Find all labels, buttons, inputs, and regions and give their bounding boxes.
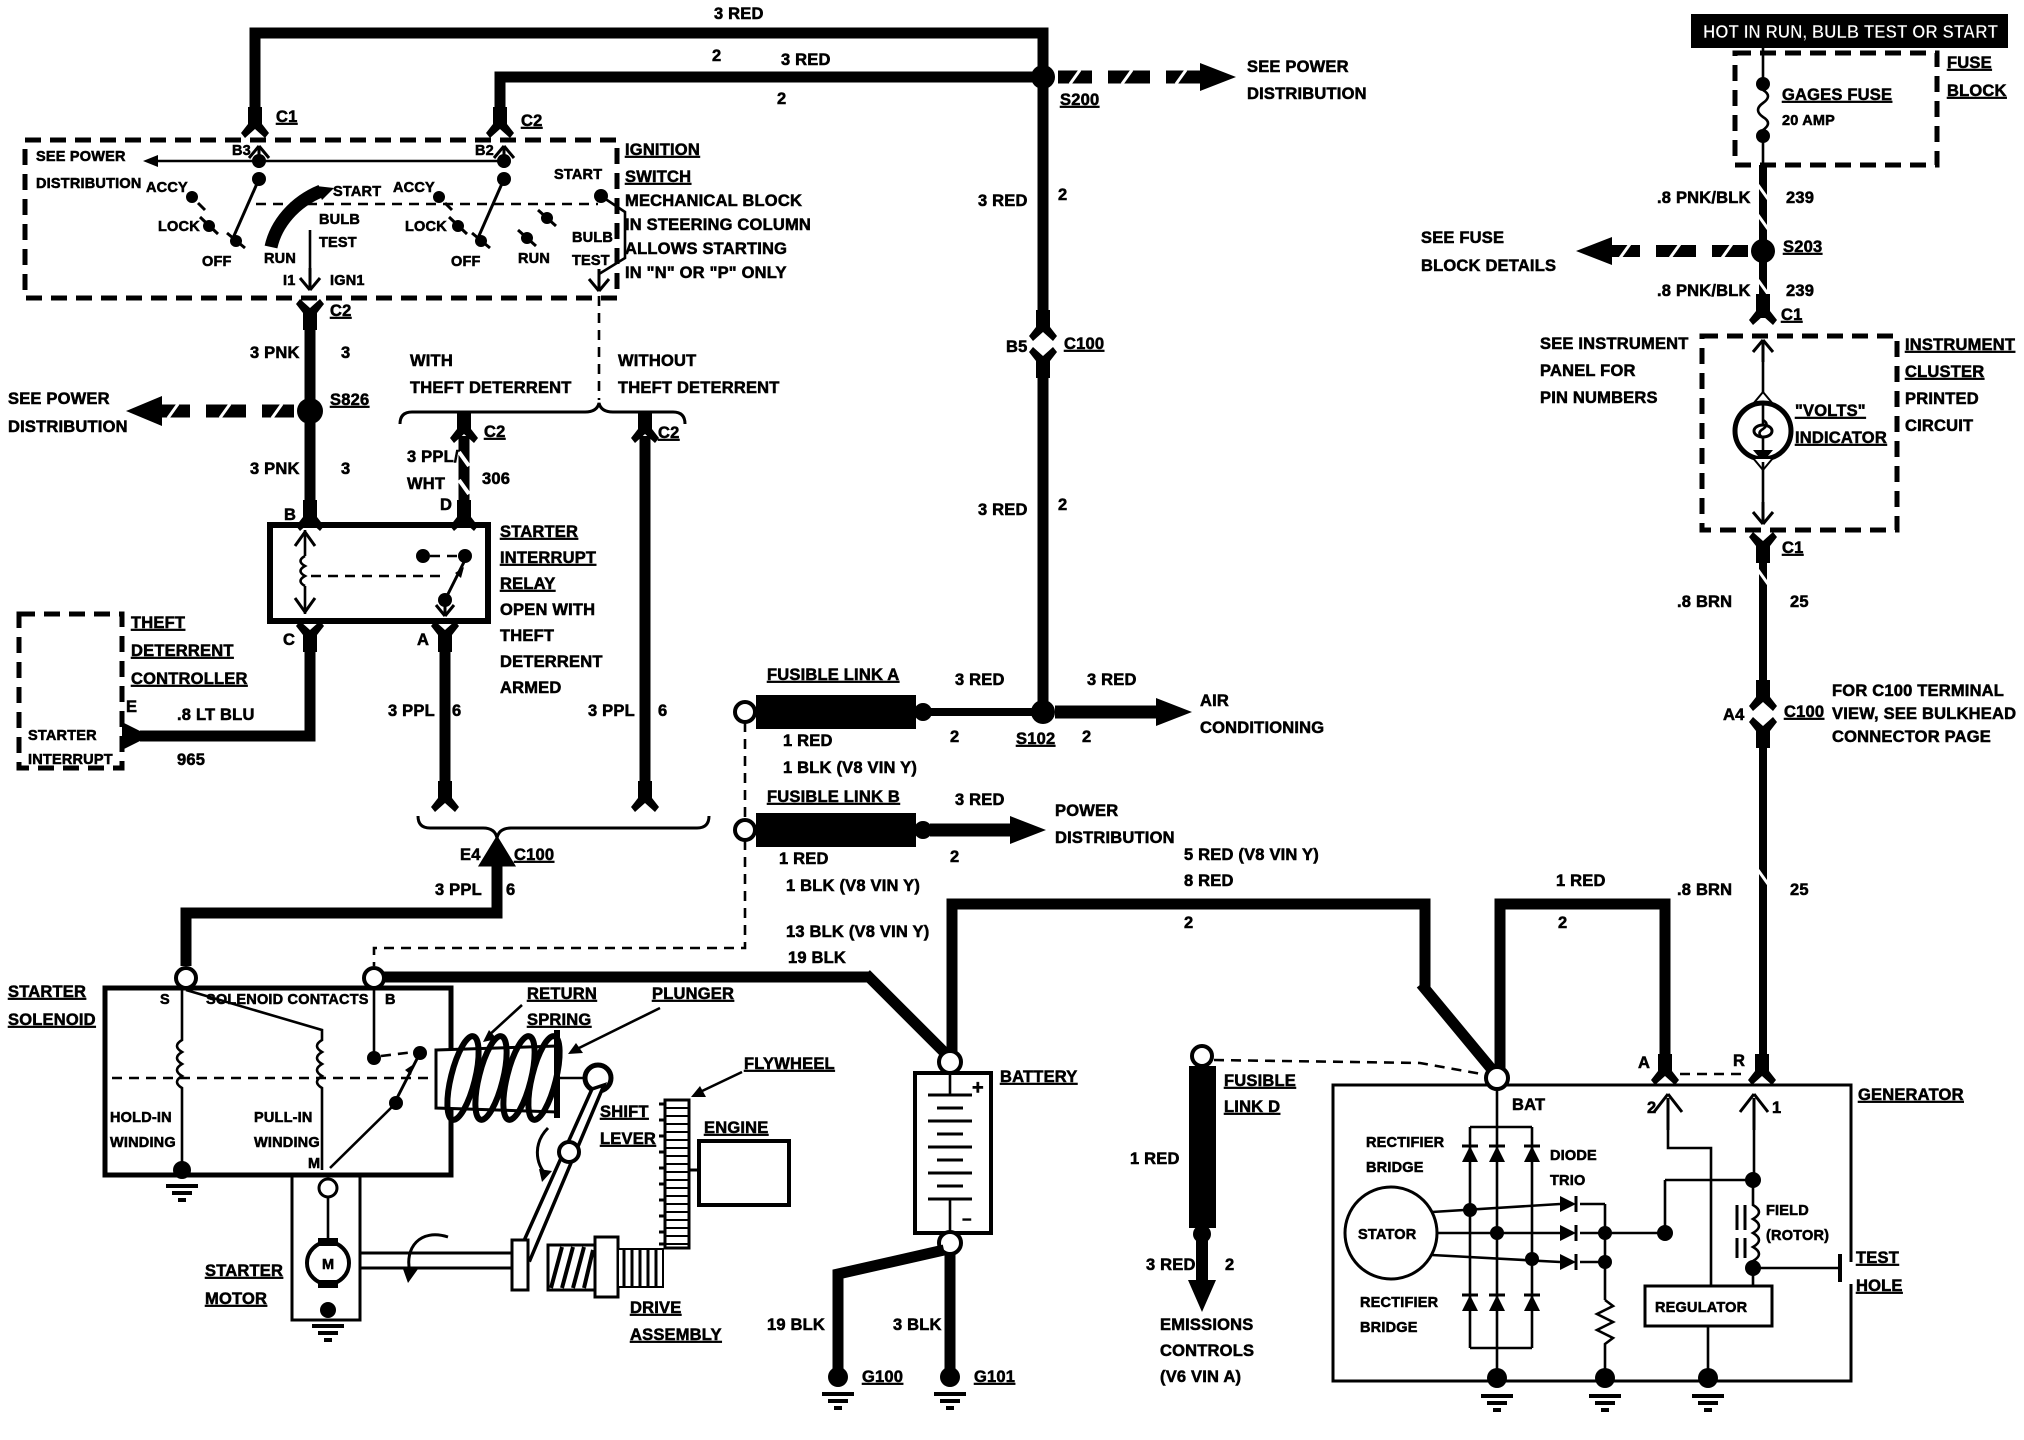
svg-text:SOLENOID CONTACTS: SOLENOID CONTACTS (206, 992, 369, 1008)
plunger end plate (554, 1030, 560, 1118)
wire: 3 RED to S102 (930, 708, 1043, 716)
svg-text:2: 2 (1058, 186, 1067, 204)
HOT banner (1691, 14, 2008, 48)
svg-text:.8 LT BLU: .8 LT BLU (177, 706, 255, 724)
svg-text:.8 BRN: .8 BRN (1677, 593, 1732, 611)
svg-text:3 RED: 3 RED (955, 671, 1005, 689)
svg-text:C1: C1 (1782, 539, 1804, 557)
svg-text:BRIDGE: BRIDGE (1360, 1320, 1418, 1336)
svg-text:3 PPL: 3 PPL (388, 702, 435, 720)
svg-text:2: 2 (1082, 728, 1091, 746)
pin B2 arrow (494, 146, 514, 168)
wire: C terminal down to theft controller E (140, 634, 310, 736)
svg-text:IN STEERING COLUMN: IN STEERING COLUMN (625, 216, 811, 234)
svg-text:AIR: AIR (1200, 692, 1229, 710)
svg-text:TRIO: TRIO (1550, 1173, 1585, 1189)
svg-text:C2: C2 (330, 302, 352, 320)
rotation arrow (409, 1235, 448, 1272)
svg-text:INSTRUMENT: INSTRUMENT (1905, 336, 2015, 354)
svg-text:1 RED: 1 RED (1556, 872, 1606, 890)
svg-text:DISTRIBUTION: DISTRIBUTION (8, 418, 128, 436)
svg-text:DISTRIBUTION: DISTRIBUTION (1055, 829, 1175, 847)
svg-text:3 RED: 3 RED (714, 5, 764, 23)
wire: 3 RED top feed from ignition C1 to S200 (255, 33, 1043, 116)
generator grounds (1487, 1368, 1507, 1388)
svg-text:1: 1 (1772, 1099, 1781, 1117)
svg-text:2: 2 (1058, 496, 1067, 514)
svg-text:HOLD-IN: HOLD-IN (110, 1110, 172, 1126)
svg-text:−: − (962, 1211, 972, 1229)
svg-text:19 BLK: 19 BLK (788, 949, 846, 967)
motor shaft (360, 1252, 512, 1255)
svg-text:2: 2 (1225, 1256, 1234, 1274)
svg-text:3 RED: 3 RED (1087, 671, 1137, 689)
wire: internal bus to left arrow (150, 160, 504, 163)
switch pole 2 wiper (478, 179, 504, 238)
svg-text:3 PNK: 3 PNK (250, 460, 300, 478)
wire: 3 RED vertical S200 to S102 (1038, 77, 1049, 314)
starter motor (307, 1242, 349, 1284)
svg-text:5 RED (V8 VIN Y): 5 RED (V8 VIN Y) (1184, 846, 1319, 864)
svg-text:OPEN WITH: OPEN WITH (500, 601, 595, 619)
svg-text:BLOCK: BLOCK (1947, 82, 2007, 100)
svg-text:RETURN: RETURN (527, 985, 597, 1003)
dashed link between fusible links and down to B terminal (744, 722, 747, 818)
svg-text:RUN: RUN (518, 251, 550, 267)
svg-text:BLOCK DETAILS: BLOCK DETAILS (1421, 257, 1556, 275)
svg-text:WITH: WITH (410, 352, 453, 370)
connector B5 C100 inline (1029, 310, 1057, 341)
stator (1345, 1187, 1437, 1279)
svg-text:FUSIBLE: FUSIBLE (1224, 1072, 1296, 1090)
ground G100 (828, 1367, 848, 1387)
svg-text:ENGINE: ENGINE (704, 1119, 768, 1137)
svg-text:M: M (308, 1156, 320, 1172)
svg-text:S: S (160, 992, 170, 1008)
svg-text:LOCK: LOCK (405, 219, 447, 235)
svg-text:2: 2 (712, 47, 721, 65)
svg-text:INTERRUPT: INTERRUPT (500, 549, 596, 567)
svg-text:2: 2 (950, 848, 959, 866)
svg-text:C2: C2 (658, 424, 680, 442)
svg-text:M: M (322, 1257, 334, 1273)
svg-text:TEST: TEST (572, 253, 610, 269)
wire: 3 RED second feed from ignition C2 to S200 (500, 77, 1043, 116)
svg-text:HOLE: HOLE (1856, 1277, 1903, 1295)
solenoid box (105, 988, 451, 1175)
starter motor enclosure (292, 1175, 360, 1320)
wire from terminal 2 to regulator (1668, 1130, 1711, 1286)
svg-text:BULB: BULB (319, 212, 360, 228)
svg-text:S102: S102 (1016, 730, 1055, 748)
svg-text:A4: A4 (1723, 706, 1745, 724)
svg-text:1 BLK (V8 VIN Y): 1 BLK (V8 VIN Y) (786, 877, 920, 895)
dash-dot centerline (112, 1077, 560, 1080)
svg-text:HOT IN RUN, BULB TEST OR START: HOT IN RUN, BULB TEST OR START (1703, 22, 1998, 42)
svg-text:8 RED: 8 RED (1184, 872, 1234, 890)
svg-text:FUSIBLE LINK B: FUSIBLE LINK B (767, 788, 900, 806)
svg-text:I1: I1 (283, 273, 296, 289)
svg-text:E: E (126, 698, 137, 716)
svg-text:B: B (385, 992, 396, 1008)
svg-text:THEFT DETERRENT: THEFT DETERRENT (410, 379, 572, 397)
svg-text:ACCY: ACCY (146, 180, 188, 196)
svg-text:R: R (1733, 1052, 1745, 1070)
svg-text:C100: C100 (514, 846, 554, 864)
wire: 19 BLK from solenoid B to battery (382, 972, 871, 983)
arrow to AIR CONDITIONING (1055, 706, 1160, 719)
svg-text:2: 2 (1184, 914, 1193, 932)
contacts pole 2 (433, 191, 445, 203)
fusible link A body (735, 702, 755, 722)
svg-text:3 RED: 3 RED (781, 51, 831, 69)
svg-text:RECTIFIER: RECTIFIER (1360, 1295, 1439, 1311)
rectifier diodes top row (1462, 1146, 1540, 1162)
svg-text:20 AMP: 20 AMP (1782, 113, 1835, 129)
svg-text:STARTER: STARTER (205, 1262, 283, 1280)
svg-text:1 BLK (V8 VIN Y): 1 BLK (V8 VIN Y) (783, 759, 917, 777)
terminal S (176, 968, 196, 988)
svg-text:239: 239 (1786, 189, 1814, 207)
svg-text:MECHANICAL BLOCK: MECHANICAL BLOCK (625, 192, 802, 210)
BAT internal line (1496, 1089, 1499, 1378)
relay box (270, 525, 488, 621)
svg-text:CONDITIONING: CONDITIONING (1200, 719, 1324, 737)
svg-text:LEVER: LEVER (600, 1130, 656, 1148)
svg-text:RELAY: RELAY (500, 575, 555, 593)
svg-text:BULB: BULB (572, 230, 613, 246)
stator leads (1432, 1204, 1560, 1212)
svg-text:SWITCH: SWITCH (625, 168, 691, 186)
plunger body (436, 1046, 556, 1112)
contacts pole 1: ACCY LOCK OFF (186, 191, 198, 203)
svg-text:PULL-IN: PULL-IN (254, 1110, 313, 1126)
svg-text:B: B (284, 506, 296, 524)
svg-text:IGNITION: IGNITION (625, 141, 700, 159)
dashed arrow SEE POWER DISTRIBUTION (left) (160, 405, 294, 418)
svg-text:SEE INSTRUMENT: SEE INSTRUMENT (1540, 335, 1689, 353)
svg-text:CIRCUIT: CIRCUIT (1905, 417, 1973, 435)
wire: 1 RED from BAT up over to A (1500, 904, 1665, 1072)
connector C2 (without theft det.) (631, 412, 659, 443)
svg-text:25: 25 (1790, 593, 1809, 611)
node to field/regulator (1605, 1232, 1665, 1235)
dashed from fusible link D to generator BAT (1214, 1060, 1487, 1075)
svg-text:SEE POWER: SEE POWER (8, 390, 110, 408)
svg-text:WHT: WHT (407, 475, 445, 493)
svg-text:CONTROLLER: CONTROLLER (131, 670, 248, 688)
svg-text:1 RED: 1 RED (779, 850, 829, 868)
wire: 19 BLK to G100 (838, 1250, 944, 1370)
svg-text:SHIFT: SHIFT (600, 1103, 649, 1121)
gages fuse (1762, 48, 1765, 80)
splice S200 (1031, 65, 1055, 89)
BAT terminal (1486, 1067, 1508, 1089)
START contact pole 2 (594, 189, 608, 203)
svg-text:C: C (283, 631, 295, 649)
connector at E (122, 722, 140, 750)
hold-in winding (177, 988, 182, 1168)
svg-text:E4: E4 (460, 846, 481, 864)
svg-text:WITHOUT: WITHOUT (618, 352, 696, 370)
node B3 dots (252, 154, 266, 168)
connector C2 (with theft det.) (450, 412, 478, 443)
wire: 8 RED from battery to generator BAT (952, 904, 1425, 1058)
svg-text:2: 2 (950, 728, 959, 746)
terminal B (364, 968, 384, 988)
svg-text:ARMED: ARMED (500, 679, 562, 697)
connector C1 (ignition) (241, 107, 269, 138)
test hole line (1753, 1267, 1838, 1270)
svg-text:FIELD: FIELD (1766, 1203, 1809, 1219)
flywheel gear (665, 1100, 689, 1248)
svg-text:INTERRUPT: INTERRUPT (28, 752, 113, 768)
svg-text:VIEW, SEE BULKHEAD: VIEW, SEE BULKHEAD (1832, 705, 2016, 723)
drive collar (512, 1240, 528, 1290)
wire: .8 PNK/BLK 239 to cluster C1 (1759, 260, 1767, 318)
relay contact (416, 549, 430, 563)
rectifier diodes bottom row (1462, 1295, 1540, 1311)
dashed line from START down to brace (598, 296, 601, 400)
battery plates (949, 1073, 952, 1095)
splined shaft (618, 1249, 663, 1287)
svg-text:STARTER: STARTER (28, 728, 97, 744)
svg-text:EMISSIONS: EMISSIONS (1160, 1316, 1254, 1334)
wire from terminal 1 to field (1753, 1130, 1756, 1180)
svg-text:DETERRENT: DETERRENT (500, 653, 603, 671)
svg-text:WINDING: WINDING (254, 1135, 320, 1151)
svg-text:REGULATOR: REGULATOR (1655, 1300, 1748, 1316)
battery negative circle (939, 1232, 961, 1254)
rectifier rails (1470, 1126, 1532, 1129)
wire: IGN1 drop (309, 230, 312, 282)
svg-text:G100: G100 (862, 1368, 903, 1386)
svg-text:2: 2 (777, 90, 786, 108)
svg-text:STARTER: STARTER (500, 523, 578, 541)
svg-text:GENERATOR: GENERATOR (1858, 1086, 1964, 1104)
svg-text:START: START (554, 167, 602, 183)
svg-text:1 RED: 1 RED (1130, 1150, 1180, 1168)
volts indicator bulb (1735, 403, 1791, 459)
svg-text:INDICATOR: INDICATOR (1795, 429, 1887, 447)
svg-text:2: 2 (1647, 1099, 1656, 1117)
svg-text:D: D (440, 496, 452, 514)
pinion collar (595, 1237, 618, 1297)
svg-text:(ROTOR): (ROTOR) (1766, 1228, 1829, 1244)
svg-text:3 PPL/: 3 PPL/ (407, 448, 459, 466)
svg-text:+: + (972, 1077, 984, 1099)
svg-text:THEFT: THEFT (500, 627, 554, 645)
connector C2 (ignition) (486, 107, 514, 138)
svg-text:THEFT: THEFT (131, 614, 185, 632)
svg-text:C1: C1 (276, 108, 298, 126)
svg-text:FUSIBLE LINK A: FUSIBLE LINK A (767, 666, 899, 684)
connector C2 below ignition (296, 299, 324, 330)
svg-text:IN "N" OR "P" ONLY: IN "N" OR "P" ONLY (625, 264, 787, 282)
return spring coils (441, 1033, 566, 1122)
switch pole 1 wiper (233, 179, 259, 238)
svg-text:PIN NUMBERS: PIN NUMBERS (1540, 389, 1658, 407)
svg-text:13 BLK (V8 VIN Y): 13 BLK (V8 VIN Y) (786, 923, 929, 941)
svg-text:3 RED: 3 RED (1146, 1256, 1196, 1274)
svg-text:3 RED: 3 RED (955, 791, 1005, 809)
svg-text:ALLOWS STARTING: ALLOWS STARTING (625, 240, 787, 258)
svg-text:CONNECTOR PAGE: CONNECTOR PAGE (1832, 728, 1991, 746)
svg-text:"VOLTS": "VOLTS" (1795, 402, 1866, 420)
svg-text:3 RED: 3 RED (978, 501, 1028, 519)
svg-text:25: 25 (1790, 881, 1809, 899)
svg-text:306: 306 (482, 470, 510, 488)
svg-text:.8 PNK/BLK: .8 PNK/BLK (1657, 189, 1751, 207)
brace over C2 connectors (400, 403, 685, 424)
wire: 3 PPL/WHT striped to relay D (459, 436, 470, 525)
svg-text:.8 BRN: .8 BRN (1677, 881, 1732, 899)
connector A4 C100 (1749, 680, 1777, 711)
svg-text:6: 6 (506, 881, 515, 899)
svg-text:TEST: TEST (319, 235, 357, 251)
svg-text:DETERRENT: DETERRENT (131, 642, 234, 660)
svg-text:6: 6 (658, 702, 667, 720)
svg-text:DRIVE: DRIVE (630, 1299, 681, 1317)
svg-text:ASSEMBLY: ASSEMBLY (630, 1326, 722, 1344)
svg-text:MOTOR: MOTOR (205, 1290, 267, 1308)
svg-text:SEE POWER: SEE POWER (1247, 58, 1349, 76)
svg-text:STATOR: STATOR (1358, 1227, 1417, 1243)
svg-text:.8 PNK/BLK: .8 PNK/BLK (1657, 282, 1751, 300)
svg-text:START: START (333, 184, 381, 200)
svg-text:PLUNGER: PLUNGER (652, 985, 734, 1003)
svg-text:1 RED: 1 RED (783, 732, 833, 750)
svg-text:PRINTED: PRINTED (1905, 390, 1979, 408)
lever (518, 1085, 604, 1260)
svg-text:C100: C100 (1784, 703, 1824, 721)
svg-text:FOR C100 TERMINAL: FOR C100 TERMINAL (1832, 682, 2004, 700)
svg-text:WINDING: WINDING (110, 1135, 176, 1151)
pin B3 arrow (249, 146, 269, 168)
svg-text:LINK D: LINK D (1224, 1098, 1280, 1116)
splice S203 (1751, 239, 1775, 263)
svg-text:S200: S200 (1060, 91, 1099, 109)
brace under 3 PPL wires (418, 816, 709, 838)
svg-text:OFF: OFF (202, 254, 232, 270)
svg-text:DIODE: DIODE (1550, 1148, 1597, 1164)
terminal arrows inside (1654, 1094, 1682, 1130)
connector E4 C100 (486, 844, 508, 866)
svg-text:TEST: TEST (1856, 1249, 1899, 1267)
connector C1 bottom (1749, 532, 1777, 563)
dashed arrow to SEE POWER DISTRIBUTION (right) (1058, 71, 1200, 84)
splice S102 (1031, 700, 1055, 724)
fuse block dashed box (1735, 53, 1937, 165)
svg-text:B5: B5 (1006, 338, 1028, 356)
mechanical link dashed (256, 203, 598, 206)
svg-text:STARTER: STARTER (8, 983, 86, 1001)
svg-text:B3: B3 (232, 143, 251, 159)
resistor (1597, 1300, 1613, 1378)
node B2 dots (497, 154, 511, 168)
svg-text:DISTRIBUTION: DISTRIBUTION (36, 176, 142, 192)
pull-in winding (186, 990, 322, 1170)
svg-text:SEE FUSE: SEE FUSE (1421, 229, 1504, 247)
svg-text:C2: C2 (521, 112, 543, 130)
solenoid ground junction (173, 1161, 191, 1179)
svg-text:POWER: POWER (1055, 802, 1118, 820)
hatched sleeve (548, 1245, 595, 1290)
svg-text:B2: B2 (475, 143, 494, 159)
wire: A terminal down to brace (440, 634, 451, 794)
generator box (1333, 1085, 1851, 1381)
svg-text:S826: S826 (330, 391, 369, 409)
svg-text:BRIDGE: BRIDGE (1366, 1160, 1424, 1176)
A and R connectors on top (1651, 1054, 1679, 1085)
svg-text:RUN: RUN (264, 251, 296, 267)
contact arm from B (373, 988, 376, 1052)
arrow to POWER DISTRIBUTION (930, 824, 1012, 837)
svg-text:6: 6 (452, 702, 461, 720)
relay coil (301, 530, 306, 614)
svg-text:3 RED: 3 RED (978, 192, 1028, 210)
splice S826 (297, 398, 323, 424)
svg-text:19 BLK: 19 BLK (767, 1316, 825, 1334)
ground G101 (940, 1367, 960, 1387)
svg-text:GAGES FUSE: GAGES FUSE (1782, 86, 1892, 104)
svg-text:CONTROLS: CONTROLS (1160, 1342, 1254, 1360)
svg-text:FUSE: FUSE (1947, 54, 1992, 72)
svg-text:3: 3 (341, 344, 350, 362)
svg-text:A: A (417, 631, 429, 649)
svg-text:2: 2 (1558, 914, 1567, 932)
regulator (1645, 1286, 1772, 1326)
svg-text:OFF: OFF (451, 254, 481, 270)
svg-text:FLYWHEEL: FLYWHEEL (744, 1055, 835, 1073)
svg-text:RECTIFIER: RECTIFIER (1366, 1135, 1445, 1151)
svg-text:239: 239 (1786, 282, 1814, 300)
svg-text:C1: C1 (1781, 306, 1803, 324)
curved arrow at lever (537, 1128, 548, 1176)
svg-text:DISTRIBUTION: DISTRIBUTION (1247, 85, 1367, 103)
svg-text:SEE POWER: SEE POWER (36, 149, 126, 165)
wire: 3 PPL right branch (without theft) (640, 436, 651, 794)
wire: 3 PNK from ignition to S826 (305, 316, 316, 525)
svg-text:3: 3 (341, 460, 350, 478)
svg-text:C100: C100 (1064, 335, 1104, 353)
svg-text:SOLENOID: SOLENOID (8, 1011, 96, 1029)
svg-text:S203: S203 (1783, 238, 1822, 256)
dashed arrow SEE FUSE BLOCK DETAILS (1610, 245, 1748, 257)
svg-text:C2: C2 (484, 423, 506, 441)
trio output rail (1580, 1203, 1605, 1206)
svg-text:BAT: BAT (1512, 1096, 1545, 1114)
svg-text:BATTERY: BATTERY (1000, 1068, 1077, 1086)
svg-text:G101: G101 (974, 1368, 1015, 1386)
svg-text:PANEL FOR: PANEL FOR (1540, 362, 1636, 380)
svg-text:3 BLK: 3 BLK (893, 1316, 942, 1334)
svg-text:CLUSTER: CLUSTER (1905, 363, 1984, 381)
svg-text:THEFT DETERRENT: THEFT DETERRENT (618, 379, 780, 397)
wire: .8 PNK/BLK 239 to S203 (1759, 165, 1767, 242)
svg-text:A: A (1638, 1054, 1650, 1072)
svg-text:(V6 VIN A): (V6 VIN A) (1160, 1368, 1241, 1386)
svg-text:965: 965 (177, 751, 205, 769)
svg-text:IGN1: IGN1 (330, 273, 365, 289)
svg-text:LOCK: LOCK (158, 219, 200, 235)
START wiper arc pole 1 (271, 191, 321, 247)
wire: 3 PPL 6 down to starter solenoid S (186, 862, 497, 966)
relay dash link (311, 575, 446, 578)
svg-text:3 PPL: 3 PPL (435, 881, 482, 899)
svg-text:3 PNK: 3 PNK (250, 344, 300, 362)
wire: 3 BLK to G101 (945, 1254, 956, 1370)
